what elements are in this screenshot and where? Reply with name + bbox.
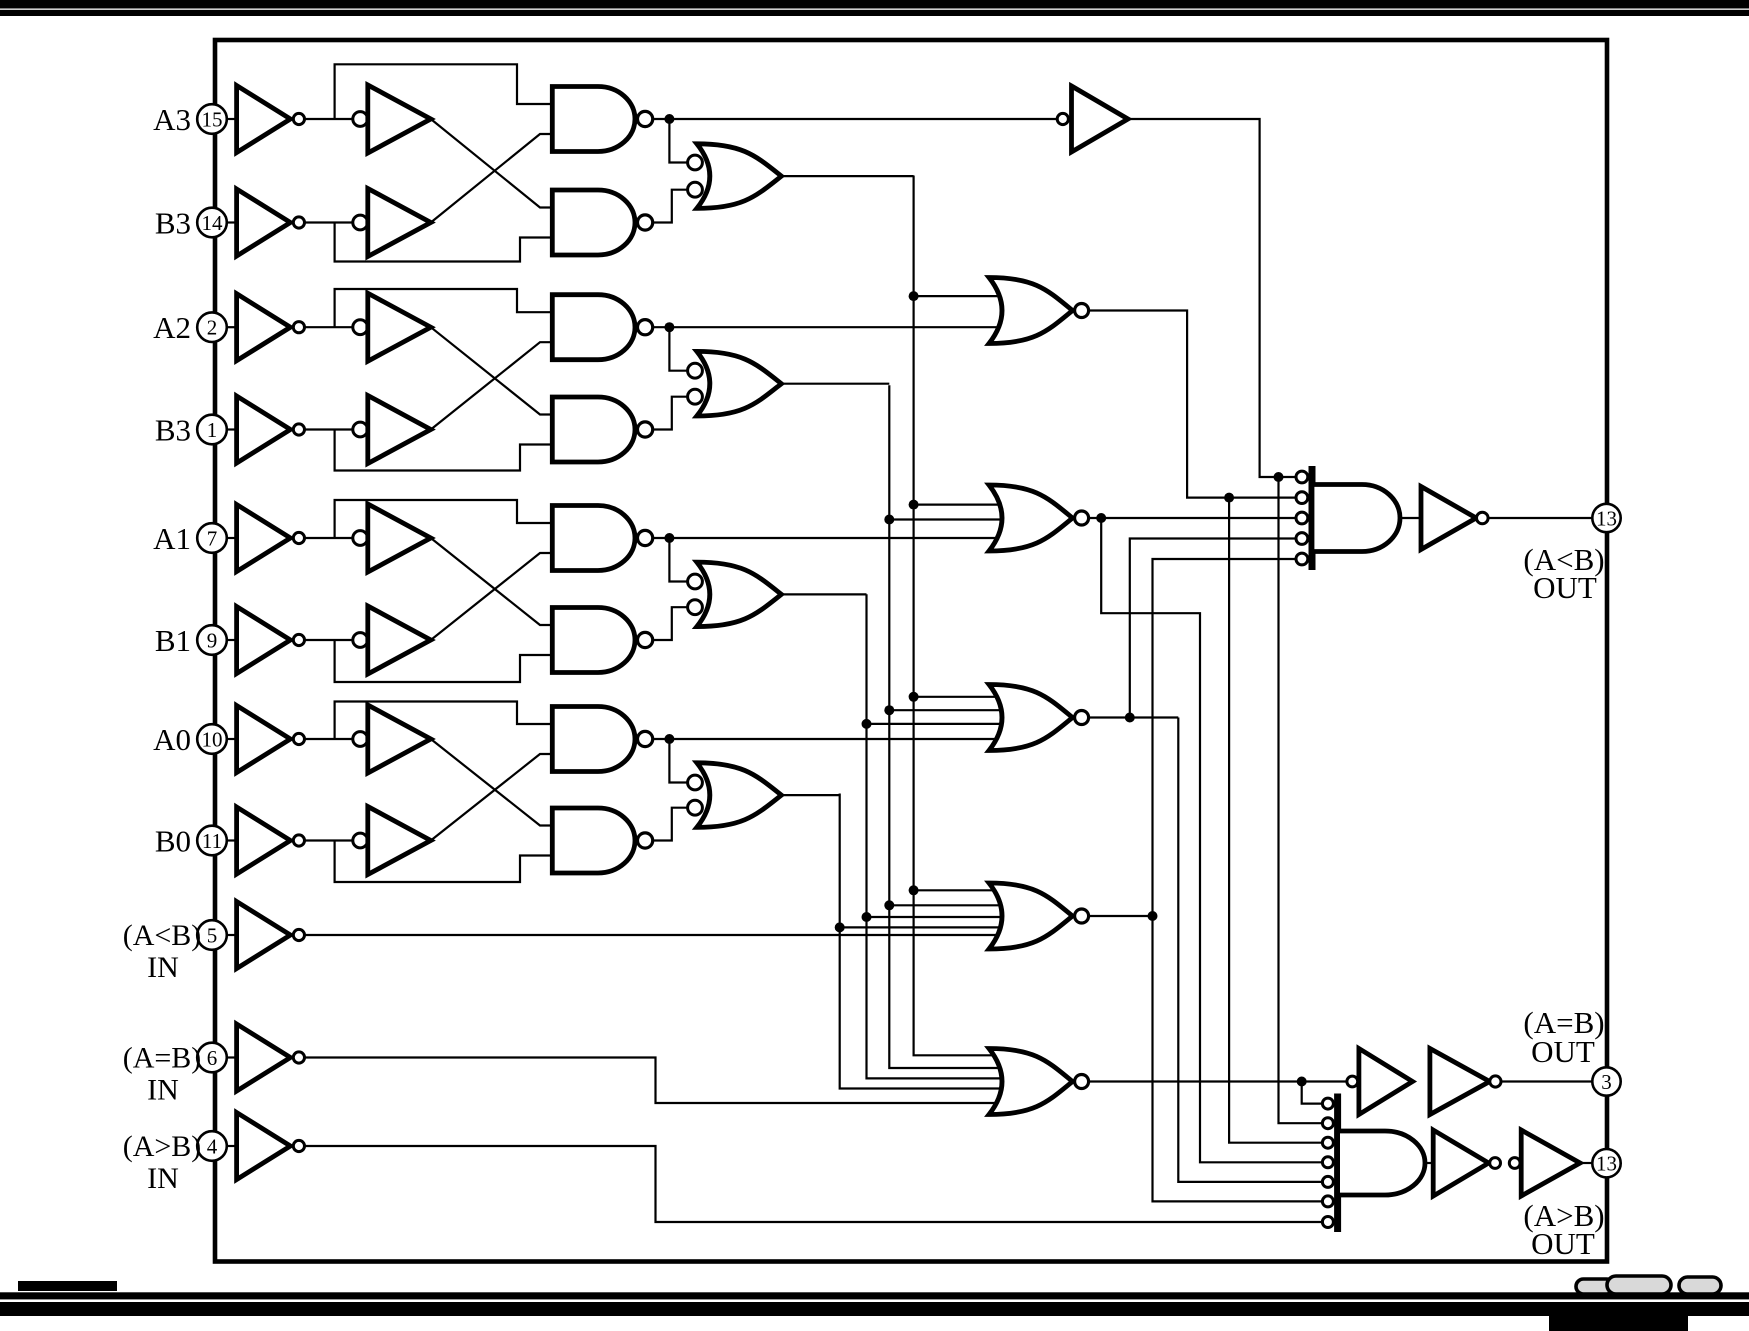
wire diagonal A0-buffer to lower NAND (431, 739, 553, 826)
wire inverter A3 to buffer (305, 118, 354, 120)
label B1 (155, 623, 191, 658)
wire NOR2 output to A<B gate (1089, 513, 1296, 523)
AND gate A<B (inverted inputs) (1296, 466, 1400, 570)
wire NOR4 branch to A>B gate (1153, 916, 1323, 1201)
inverter B3 input (237, 189, 305, 256)
NOR gate N1 (989, 278, 1089, 344)
pin 13 (A<B OUT) (1592, 504, 1620, 532)
svg-text:OUT: OUT (1533, 570, 1597, 605)
wire A>B IN to A>B gate (305, 1146, 1323, 1222)
wire NOR1 branch to A>B gate (1229, 498, 1323, 1143)
pin 15 (A3) (197, 104, 227, 134)
wire pin 6 to buffer (224, 1056, 237, 1058)
svg-text:3: 3 (1601, 1070, 1612, 1094)
buffer B0 (inverting input) (353, 807, 431, 875)
wire NAND-A3 output to OR input (653, 114, 688, 163)
wire buffer-box bottom route pair A0/B0 (335, 841, 553, 883)
buffer (A&gt;B) IN (237, 1113, 305, 1180)
svg-text:B3: B3 (155, 413, 191, 448)
wire EQ3 junction to NOR4 (909, 885, 1000, 895)
wire EQ2 rail (781, 383, 889, 385)
wire pin 1 to inverter B3 (224, 428, 237, 430)
OR gate pair A3/B3 (inverted inputs) (688, 144, 782, 209)
IC boundary (215, 40, 1607, 1262)
wire buffer-box top route pair A0/B0 (335, 702, 553, 740)
wire A1 term to NOR2 (669, 537, 1000, 539)
wire EQ1 junction to NOR3 (862, 719, 1001, 729)
NAND gate A3 term (552, 87, 652, 152)
wire diagonal A2-buffer to lower NAND (431, 327, 553, 414)
label B3 (155, 206, 191, 241)
buffer (A=B) IN (237, 1024, 305, 1091)
wire buffer-box bottom route pair A3/B3 (335, 223, 553, 262)
pin 13 (A>B OUT) (1592, 1149, 1620, 1177)
buffer A=B 1 (1347, 1049, 1413, 1115)
buffer A0 (inverting input) (353, 705, 431, 773)
pin 5 control (197, 920, 227, 950)
wire pin 2 to inverter A2 (224, 326, 237, 328)
wire pin 9 to inverter B1 (224, 639, 237, 641)
buffer A1 (inverting input) (353, 504, 431, 572)
wire NOR3 branch to A>B gate (1178, 718, 1322, 1182)
svg-text:A2: A2 (153, 310, 191, 345)
bottom border bar (0, 1281, 1749, 1331)
inverter A1 input (237, 505, 305, 572)
svg-text:IN: IN (147, 951, 179, 984)
wire inverter B0 to buffer (305, 839, 354, 841)
wire NOR3 riser to A<B gate (1130, 539, 1296, 718)
wire buffer-box top route pair A1/B1 (335, 500, 553, 538)
pin 2 (A2) (197, 312, 227, 342)
inverter A2 input (237, 294, 305, 361)
NOR gate N5 (989, 1049, 1089, 1115)
svg-text:A3: A3 (153, 102, 191, 137)
svg-text:14: 14 (202, 211, 224, 235)
wire NOR5 branch to A>B gate (1302, 1082, 1323, 1104)
buffer B3 (inverting input) (353, 396, 431, 464)
wire NOR5 output to buffers (1089, 1077, 1347, 1087)
wire pin 7 to inverter A1 (224, 537, 237, 539)
wire A<B IN to NOR4 (305, 934, 1001, 936)
wire NAND-A0 output to OR input (653, 734, 688, 783)
svg-text:IN: IN (147, 1074, 179, 1107)
wire NOR3 output (1089, 713, 1178, 723)
label A=B OUT (1523, 1005, 1604, 1069)
NOR gate N4 (989, 883, 1089, 949)
label (A&gt;B) IN (123, 1130, 202, 1195)
wire EQ0 rail (781, 794, 839, 796)
wire NOR4 riser to A<B gate (1153, 559, 1296, 916)
wire to pin 3 (1501, 1080, 1593, 1082)
wire inverter B1 to buffer (305, 639, 354, 641)
wire inverter B3 to buffer (305, 428, 354, 430)
wire buffer-box top route pair A2/B3 (335, 289, 553, 327)
buffer B3 (inverting input) (353, 189, 431, 257)
wire buffer-box bottom route pair A1/B1 (335, 640, 553, 682)
wire NAND-B3 output to OR input (653, 397, 688, 430)
wire diagonal A1-buffer to lower NAND (431, 538, 553, 625)
wire EQ1 vertical (867, 594, 1001, 1078)
svg-text:13: 13 (1596, 507, 1617, 531)
buffer A2 (inverting input) (353, 293, 431, 361)
wire EQ2 vertical (889, 385, 1000, 1068)
wire diagonal B0-buffer to upper NAND (431, 754, 553, 841)
buffer A3 (inverting input) (353, 85, 431, 153)
wire diagonal B1-buffer to upper NAND (431, 553, 553, 640)
label B3 (155, 413, 191, 448)
wire pin 5 to buffer (224, 934, 237, 936)
pin 1 (B3) (197, 415, 227, 445)
wire EQ3 junction to NOR3 (909, 692, 1000, 702)
label A0 (153, 722, 191, 757)
wire NOR2 branch to A>B gate (1101, 518, 1322, 1162)
wire A2 term to NOR1 (669, 326, 1000, 328)
svg-text:(A>B): (A>B) (123, 1130, 202, 1163)
svg-text:10: 10 (202, 728, 223, 752)
pin 11 (B0) (197, 826, 227, 856)
wire NAND-B3 output to OR input (653, 190, 688, 223)
label (A&lt;B) IN (123, 919, 202, 984)
label A1 (153, 521, 191, 556)
svg-text:A0: A0 (153, 722, 191, 757)
svg-text:5: 5 (207, 924, 218, 948)
inverter U-top (A3 term) (1057, 86, 1128, 152)
OR gate pair A1/B1 (inverted inputs) (688, 562, 782, 627)
pin 6 control (197, 1043, 227, 1073)
wire A<B AND to inverter (1400, 517, 1421, 519)
wire inverter B3 to buffer (305, 221, 354, 223)
wire diagonal A3-buffer to lower NAND (431, 119, 553, 208)
inverter A<B out (1421, 487, 1488, 550)
svg-text:A1: A1 (153, 521, 191, 556)
svg-text:B3: B3 (155, 206, 191, 241)
pin 3 (A=B OUT) (1592, 1067, 1620, 1095)
svg-text:B1: B1 (155, 623, 191, 658)
wire NAND-B1 output to OR input (653, 607, 688, 640)
NAND gate A2 term (552, 295, 652, 360)
inverter A>B 2 (1509, 1130, 1580, 1196)
wire A=B IN to NOR5 (305, 1058, 1001, 1104)
label A>B OUT (1523, 1198, 1604, 1261)
svg-text:15: 15 (202, 108, 223, 132)
svg-text:11: 11 (202, 829, 222, 853)
wire EQ1 junction to NOR4 (862, 912, 1001, 922)
label A<B OUT (1523, 542, 1604, 605)
wire diagonal B3-buffer to upper NAND (431, 134, 553, 223)
wire NAND-A2 output to OR input (653, 322, 688, 371)
pin 9 (B1) (197, 625, 227, 655)
inverter A>B 1 (1433, 1130, 1500, 1196)
NAND gate B3 term (552, 190, 652, 255)
wire EQ3 vertical (914, 176, 1000, 1056)
pen marks bottom right (1576, 1276, 1721, 1294)
inverter A3 input (237, 86, 305, 153)
svg-text:7: 7 (207, 527, 218, 551)
NAND gate A1 term (552, 506, 652, 571)
OR gate pair A0/B0 (inverted inputs) (688, 763, 782, 828)
buffer (A&lt;B) IN (237, 902, 305, 969)
label (A=B) IN (123, 1042, 202, 1107)
wire NOR4 output (1089, 911, 1158, 921)
svg-text:4: 4 (207, 1135, 218, 1159)
wire EQ3 rail (781, 175, 913, 177)
inverter A0 input (237, 706, 305, 773)
label A2 (153, 310, 191, 345)
svg-text:13: 13 (1596, 1152, 1617, 1176)
wire EQ2 junction to NOR2 (884, 515, 1000, 525)
inverter B3 input (237, 396, 305, 463)
buffer B1 (inverting input) (353, 606, 431, 674)
svg-text:(A<B): (A<B) (123, 919, 202, 952)
NAND gate B1 term (552, 608, 652, 673)
wire buffer-box top route pair A3/B3 (335, 64, 553, 119)
top border bar (0, 0, 1749, 16)
wire NOR1 output (1089, 311, 1296, 503)
wire EQ0 vertical (840, 794, 1000, 1089)
wire to pin 13 A<B (1488, 517, 1593, 519)
wire A3 term to inverter U-top (669, 118, 1057, 120)
wire NAND-A1 output to OR input (653, 533, 688, 582)
pin 10 (A0) (197, 724, 227, 754)
wire U-top output to A<B gate (1128, 119, 1296, 482)
inverter B1 input (237, 607, 305, 674)
wire EQ0 junction to NOR4 (835, 922, 1000, 932)
svg-text:OUT: OUT (1531, 1226, 1595, 1261)
wire pin 14 to inverter B3 (224, 221, 237, 223)
label A3 (153, 102, 191, 137)
wire pin 10 to inverter A0 (224, 738, 237, 740)
wire pin 15 to inverter A3 (224, 118, 237, 120)
pin 14 (B3) (197, 208, 227, 238)
svg-text:2: 2 (207, 316, 218, 340)
svg-text:OUT: OUT (1531, 1034, 1595, 1069)
wire U-top branch to A>B gate (1279, 477, 1323, 1123)
svg-text:6: 6 (207, 1046, 218, 1070)
svg-text:(A=B): (A=B) (123, 1042, 202, 1075)
wire inverter A1 to buffer (305, 537, 354, 539)
wire NAND-B0 output to OR input (653, 808, 688, 841)
inverter B0 input (237, 807, 305, 874)
pin 7 (A1) (197, 523, 227, 553)
svg-text:1: 1 (207, 418, 218, 442)
wire diagonal B3-buffer to upper NAND (431, 342, 553, 429)
wire buffer-box bottom route pair A2/B3 (335, 430, 553, 471)
wire EQ3 junction to NOR2 (909, 500, 1000, 510)
OR gate pair A2/B3 (inverted inputs) (688, 351, 782, 416)
wire EQ2 junction to NOR3 (884, 705, 1000, 715)
NAND gate A0 term (552, 707, 652, 772)
wire EQ3 junction to NOR1 (909, 291, 1000, 301)
NOR gate N3 (989, 685, 1089, 751)
wire A>B AND to inverter (1426, 1162, 1434, 1164)
NAND gate B3 term (552, 397, 652, 462)
NAND gate B0 term (552, 808, 652, 873)
svg-text:B0: B0 (155, 824, 191, 859)
wire EQ2 junction to NOR4 (884, 900, 1000, 910)
NOR gate N2 (989, 485, 1089, 551)
wire to pin 13 A>B (1580, 1162, 1592, 1164)
wire pin 4 to buffer (224, 1145, 237, 1147)
wire A0 term to NOR3 (669, 738, 1000, 740)
svg-text:9: 9 (207, 629, 218, 653)
wire EQ1 rail (781, 593, 866, 595)
buffer A=B 2 (1430, 1049, 1501, 1115)
wire inverter A0 to buffer (305, 738, 354, 740)
wire inverter A2 to buffer (305, 326, 354, 328)
AND gate A>B (inverted inputs) (1322, 1094, 1425, 1233)
label B0 (155, 824, 191, 859)
svg-text:IN: IN (147, 1162, 179, 1195)
pin 4 control (197, 1131, 227, 1161)
wire pin 11 to inverter B0 (224, 839, 237, 841)
